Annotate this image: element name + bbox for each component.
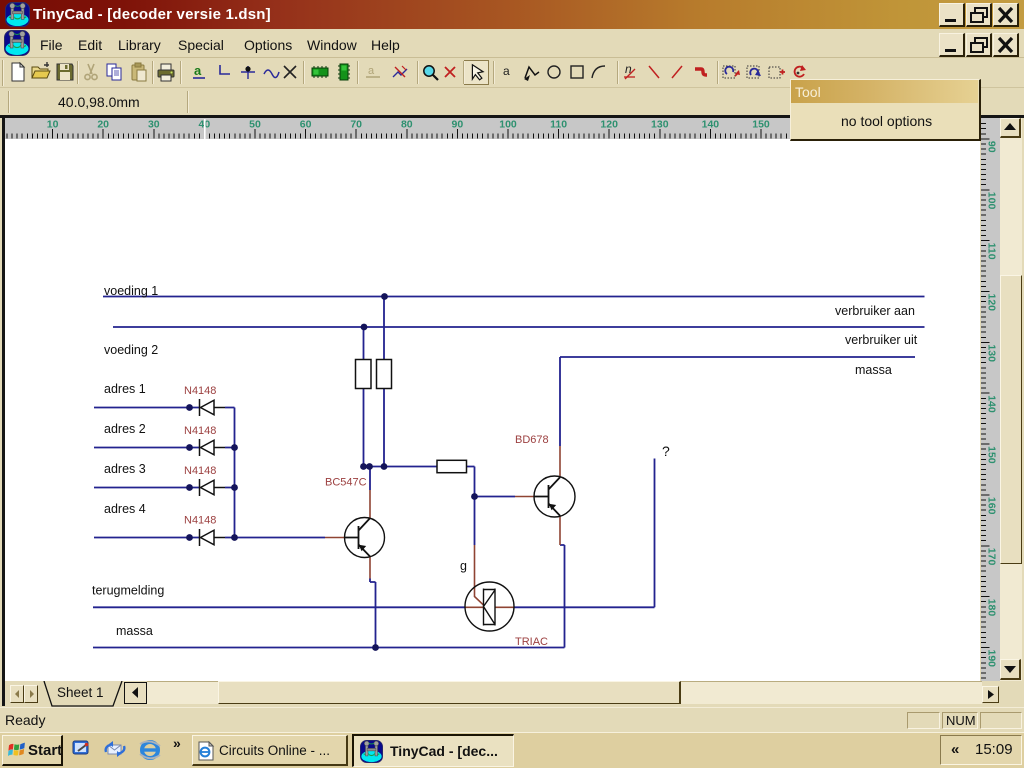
- svg-text:BC547C: BC547C: [325, 477, 367, 489]
- svg-text:N4148: N4148: [184, 425, 216, 437]
- svg-text:terugmelding: terugmelding: [92, 584, 164, 598]
- svg-text:adres 1: adres 1: [104, 382, 146, 396]
- svg-text:N4148: N4148: [184, 515, 216, 527]
- svg-text:g: g: [460, 559, 467, 573]
- svg-text:BD678: BD678: [515, 434, 549, 446]
- svg-text:voeding 2: voeding 2: [104, 343, 158, 357]
- svg-text:voeding 1: voeding 1: [104, 284, 158, 298]
- svg-text:?: ?: [662, 443, 670, 459]
- svg-text:massa: massa: [855, 363, 892, 377]
- svg-text:verbruiker aan: verbruiker aan: [835, 304, 915, 318]
- svg-text:adres 3: adres 3: [104, 462, 146, 476]
- svg-text:massa: massa: [116, 624, 153, 638]
- svg-text:N4148: N4148: [184, 385, 216, 397]
- svg-text:verbruiker uit: verbruiker uit: [845, 333, 918, 347]
- svg-text:adres 4: adres 4: [104, 502, 146, 516]
- svg-text:N4148: N4148: [184, 465, 216, 477]
- svg-text:TRIAC: TRIAC: [515, 636, 548, 648]
- svg-text:adres 2: adres 2: [104, 422, 146, 436]
